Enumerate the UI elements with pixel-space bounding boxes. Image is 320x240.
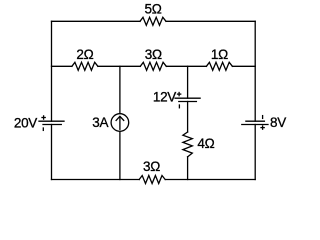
svg-text:3Ω: 3Ω [143, 159, 160, 174]
svg-text:20V: 20V [14, 115, 37, 130]
wire bottom-right segment [165, 179, 255, 181]
wire row2 seg1 [52, 65, 72, 67]
wire branch2 vertical upper [119, 66, 121, 113]
resistor R 1ohm [206, 62, 232, 70]
battery V2 12V [175, 93, 200, 108]
svg-text:8V: 8V [270, 115, 286, 130]
svg-text:4Ω: 4Ω [197, 136, 214, 151]
wire top-right segment [166, 20, 255, 22]
wire bottom-left segment [52, 179, 140, 181]
wire right vertical lower [254, 125, 256, 180]
svg-text:2Ω: 2Ω [76, 47, 93, 62]
resistor R 4ohm [183, 132, 192, 157]
wire branch2 vertical lower [119, 131, 121, 179]
wire left vertical lower [51, 125, 53, 180]
wire row2 seg3 [166, 65, 206, 67]
svg-text:5Ω: 5Ω [144, 1, 161, 16]
wire branch3 vertical upper [187, 66, 189, 98]
svg-text:12V: 12V [153, 90, 176, 105]
battery V3 8V [242, 116, 268, 130]
battery V1 20V [39, 116, 64, 130]
resistor R 5ohm [140, 17, 166, 25]
wire branch3 vertical middle [187, 102, 189, 133]
svg-text:3Ω: 3Ω [145, 47, 162, 62]
resistor R 3ohm bottom [139, 176, 165, 184]
wire top-left segment [52, 20, 141, 22]
current source I1 3A [111, 114, 129, 132]
wire branch3 vertical lower [187, 157, 189, 180]
wire right vertical upper [254, 21, 256, 121]
resistor R 3ohm middle [140, 62, 166, 70]
svg-text:3A: 3A [92, 115, 108, 130]
wire left vertical upper [51, 21, 53, 121]
svg-text:1Ω: 1Ω [211, 47, 228, 62]
wire row2 seg4 [232, 65, 255, 67]
resistor R 2ohm [72, 62, 98, 70]
wire row2 seg2 [98, 65, 140, 67]
